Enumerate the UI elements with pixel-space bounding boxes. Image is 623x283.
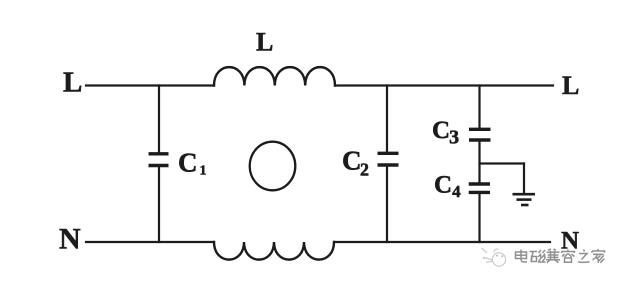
watermark icon bbox=[482, 248, 506, 266]
capacitor C2 bbox=[378, 153, 399, 165]
svg-text:C1: C1 bbox=[178, 148, 207, 179]
wire ground branch horizontal bbox=[480, 162, 525, 164]
inductor L (bottom winding) bbox=[214, 242, 334, 260]
容 bbox=[562, 250, 575, 263]
svg-text:L: L bbox=[256, 28, 273, 57]
wire C4 branch lower bbox=[478, 194, 480, 242]
wire bottom rail right bbox=[334, 241, 550, 243]
wire bottom rail left bbox=[86, 241, 214, 243]
wire C1 branch upper bbox=[158, 86, 160, 153]
svg-text:N: N bbox=[59, 223, 81, 256]
core circle of common-mode choke bbox=[250, 142, 296, 191]
svg-text:L: L bbox=[63, 67, 82, 99]
wire C2 branch lower bbox=[386, 167, 388, 242]
磁 bbox=[530, 250, 546, 262]
wire top rail right bbox=[335, 84, 553, 86]
电 bbox=[516, 250, 528, 263]
之 bbox=[578, 250, 590, 263]
ground bbox=[513, 194, 536, 205]
svg-text:C2: C2 bbox=[342, 146, 369, 180]
wire top rail left bbox=[86, 84, 214, 86]
wire C3 branch upper bbox=[478, 86, 480, 128]
家 bbox=[592, 249, 605, 263]
wire C2 branch upper bbox=[386, 86, 388, 152]
svg-text:N: N bbox=[561, 227, 579, 254]
wire ground branch vertical bbox=[523, 164, 525, 194]
兼 bbox=[546, 249, 560, 263]
svg-text:L: L bbox=[562, 71, 579, 100]
svg-text:C3: C3 bbox=[432, 117, 459, 149]
capacitor C1 bbox=[149, 154, 169, 166]
capacitor C3 bbox=[469, 129, 491, 140]
inductor L (top winding) bbox=[214, 67, 335, 85]
wire C1 branch lower bbox=[158, 167, 160, 242]
capacitor C4 bbox=[469, 184, 490, 192]
wire C3-C4 middle segment bbox=[478, 142, 480, 182]
watermark text 电磁兼容之家 (drawn strokes) bbox=[516, 249, 605, 263]
svg-text:C4: C4 bbox=[434, 172, 461, 202]
